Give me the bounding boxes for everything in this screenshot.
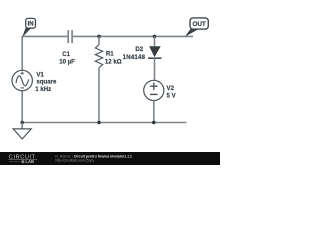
svg-text:V2: V2 — [167, 85, 175, 92]
svg-text:LAB: LAB — [26, 159, 34, 164]
label V2 — [167, 85, 175, 92]
voltage source V1 — [12, 70, 32, 90]
label R1 — [106, 50, 114, 57]
label D2 — [135, 46, 143, 53]
resistor R1 — [95, 36, 102, 122]
flag OUT — [185, 18, 208, 37]
svg-text:square: square — [36, 79, 57, 86]
node junction at D2 top — [153, 35, 157, 39]
svg-text:D2: D2 — [135, 46, 143, 53]
flag IN — [22, 18, 35, 37]
capacitor C1 — [68, 30, 72, 43]
wire left vertical (IN corner to V1 top) — [21, 36, 23, 71]
svg-text:R1: R1 — [106, 50, 114, 57]
svg-text:12 kΩ: 12 kΩ — [105, 58, 122, 65]
svg-text:1 kHz: 1 kHz — [35, 86, 51, 93]
label C1 — [62, 51, 70, 58]
node junction at R1 top — [97, 35, 101, 39]
wire V1 bottom to ground node — [21, 91, 23, 123]
node junction V1 bottom — [20, 121, 24, 125]
diode D2 — [148, 36, 162, 80]
wire bottom horizontal — [22, 122, 186, 124]
svg-text:C1: C1 — [62, 51, 70, 58]
svg-text:10 µF: 10 µF — [59, 59, 75, 66]
wire top horizontal left segment — [22, 35, 68, 37]
voltage source V2 — [144, 80, 164, 122]
value square — [36, 79, 57, 86]
svg-text:V1: V1 — [36, 72, 44, 79]
svg-text:http://circuitlab.com/c5q2y: http://circuitlab.com/c5q2y — [55, 159, 95, 163]
svg-text:1N4148: 1N4148 — [123, 54, 146, 61]
ground — [13, 123, 31, 140]
label V1 — [36, 72, 44, 79]
svg-text:OUT: OUT — [192, 21, 205, 28]
value 12 kΩ — [105, 58, 122, 65]
node junction V2 bottom — [152, 121, 156, 125]
value 1N4148 — [123, 54, 146, 61]
footer watermark bar — [0, 152, 223, 168]
svg-text:5 V: 5 V — [167, 93, 177, 100]
value 1 kHz — [35, 86, 51, 93]
node junction R1 bottom — [97, 121, 101, 125]
wire top horizontal right segment — [72, 35, 193, 37]
value 10 µF — [59, 59, 75, 66]
svg-text:IN: IN — [28, 21, 35, 28]
value 5 V — [167, 93, 177, 100]
